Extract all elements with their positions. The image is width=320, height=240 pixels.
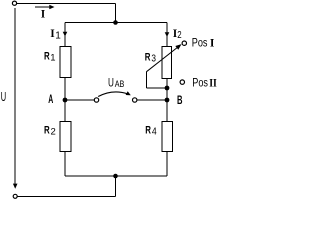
svg-text:3: 3: [151, 54, 156, 65]
wire R4 bottom: [166, 152, 168, 177]
arrow I (source current): [35, 6, 50, 8]
switch contact right: [133, 98, 137, 102]
arrow UAB arc: [98, 92, 128, 97]
wire wiper return horizontal: [147, 87, 168, 89]
svg-text:U: U: [108, 76, 114, 90]
resistor R2: [60, 122, 71, 152]
resistor R1: [60, 47, 71, 78]
arrow U (source voltage): [14, 8, 16, 184]
node junction bottom: [113, 174, 118, 179]
wiper arrow of R3: [147, 47, 179, 72]
node A: [63, 98, 68, 103]
svg-text:B: B: [177, 95, 183, 107]
wire bottom drop: [115, 176, 117, 196]
svg-text:R: R: [145, 52, 151, 64]
wire top horizontal: [17, 3, 116, 5]
svg-text:AB: AB: [115, 79, 125, 89]
svg-text:Pos: Pos: [192, 78, 208, 90]
node B: [165, 98, 170, 103]
resistor R3 (potentiometer): [162, 47, 172, 79]
terminal Pos II: [180, 80, 184, 84]
wire node A to switch contact: [65, 99, 94, 101]
svg-text:R: R: [44, 124, 50, 136]
svg-text:1: 1: [50, 53, 55, 64]
svg-text:2: 2: [51, 126, 56, 137]
wire distribution: [65, 22, 167, 24]
svg-text:R: R: [44, 51, 50, 63]
wire R3 bottom through B to R4: [166, 79, 168, 122]
arrow I2: [165, 32, 170, 37]
arrow I1: [63, 32, 68, 37]
wire wiper return vertical: [146, 72, 148, 88]
wire bottom connection: [65, 175, 167, 177]
svg-text:I: I: [41, 8, 46, 20]
wire bottom horizontal: [17, 195, 115, 197]
svg-text:R: R: [145, 124, 151, 136]
svg-text:4: 4: [152, 126, 157, 137]
node wiper junction: [165, 86, 170, 91]
svg-text:U: U: [1, 89, 6, 104]
svg-text:Pos: Pos: [192, 38, 208, 50]
terminal bottom-left: [13, 194, 17, 198]
svg-text:1: 1: [55, 30, 61, 41]
svg-text:2: 2: [177, 29, 182, 41]
svg-text:I: I: [210, 38, 215, 50]
wire right branch to R3: [166, 23, 168, 47]
terminal top-left: [12, 1, 16, 5]
wire top-right drop: [115, 4, 117, 23]
wire node A to R2: [64, 100, 66, 122]
wire R1 to node A: [64, 78, 66, 101]
node junction top: [113, 20, 118, 25]
wire left branch to R1: [64, 23, 66, 48]
switch contact left: [94, 98, 98, 102]
resistor R4: [162, 122, 173, 152]
wire R2 bottom: [64, 152, 66, 177]
wire switch to node B: [137, 99, 167, 101]
svg-text:A: A: [48, 94, 53, 106]
svg-text:II: II: [209, 78, 217, 90]
terminal Pos I: [182, 41, 186, 45]
